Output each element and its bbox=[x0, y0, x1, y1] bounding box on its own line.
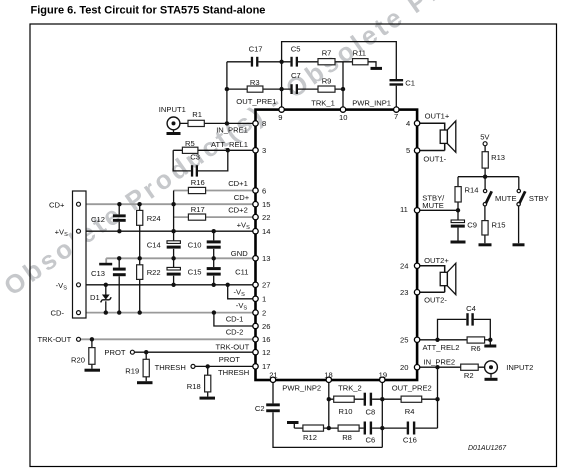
svg-text:R22: R22 bbox=[147, 268, 161, 277]
svg-text:TRK_2: TRK_2 bbox=[338, 383, 362, 392]
svg-text:R12: R12 bbox=[303, 433, 317, 442]
svg-text:C12: C12 bbox=[91, 215, 105, 224]
svg-text:14: 14 bbox=[262, 227, 270, 236]
svg-text:R19: R19 bbox=[125, 367, 139, 376]
svg-text:21: 21 bbox=[269, 370, 277, 379]
svg-text:OUT_PRE2: OUT_PRE2 bbox=[392, 383, 432, 392]
svg-text:ATT_REL2: ATT_REL2 bbox=[423, 343, 460, 352]
svg-text:TRK-OUT: TRK-OUT bbox=[38, 335, 72, 344]
svg-text:19: 19 bbox=[379, 370, 387, 379]
svg-text:GND: GND bbox=[231, 249, 248, 258]
svg-text:R15: R15 bbox=[492, 220, 506, 229]
svg-text:INPUT1: INPUT1 bbox=[159, 105, 186, 114]
svg-text:26: 26 bbox=[262, 322, 270, 331]
svg-text:C15: C15 bbox=[188, 267, 202, 276]
svg-text:3: 3 bbox=[262, 146, 266, 155]
svg-text:R13: R13 bbox=[491, 153, 505, 162]
svg-text:R2: R2 bbox=[464, 371, 474, 380]
svg-text:R17: R17 bbox=[191, 205, 205, 214]
svg-text:R14: R14 bbox=[465, 185, 479, 194]
svg-text:CD-1: CD-1 bbox=[226, 315, 244, 324]
svg-text:C7: C7 bbox=[291, 71, 301, 80]
svg-text:D1: D1 bbox=[90, 293, 100, 302]
svg-text:1: 1 bbox=[262, 295, 266, 304]
svg-text:THRESH: THRESH bbox=[155, 363, 186, 372]
svg-text:PWR_INP2: PWR_INP2 bbox=[282, 383, 321, 392]
svg-text:10: 10 bbox=[339, 113, 347, 122]
svg-text:C9: C9 bbox=[467, 220, 477, 229]
svg-text:C2: C2 bbox=[255, 404, 265, 413]
svg-text:C16: C16 bbox=[403, 436, 417, 445]
svg-text:4: 4 bbox=[406, 119, 410, 128]
svg-text:OUT_PRE1: OUT_PRE1 bbox=[236, 97, 276, 106]
svg-text:CD+1: CD+1 bbox=[228, 179, 248, 188]
svg-text:24: 24 bbox=[400, 262, 408, 271]
svg-text:C17: C17 bbox=[249, 44, 263, 53]
svg-text:R8: R8 bbox=[342, 433, 352, 442]
svg-text:R20: R20 bbox=[71, 355, 85, 364]
svg-text:OUT2-: OUT2- bbox=[424, 295, 447, 304]
svg-text:CD+: CD+ bbox=[234, 193, 250, 202]
svg-text:C5: C5 bbox=[291, 44, 301, 53]
svg-text:5: 5 bbox=[406, 146, 410, 155]
svg-text:16: 16 bbox=[262, 335, 270, 344]
svg-text:C1: C1 bbox=[405, 78, 415, 87]
svg-text:6: 6 bbox=[262, 186, 266, 195]
svg-text:IN_PRE2: IN_PRE2 bbox=[424, 358, 456, 367]
svg-text:CD-2: CD-2 bbox=[226, 328, 244, 337]
svg-text:23: 23 bbox=[400, 288, 408, 297]
svg-text:R7: R7 bbox=[322, 48, 332, 57]
svg-text:ATT_REL1: ATT_REL1 bbox=[211, 140, 248, 149]
svg-text:C10: C10 bbox=[188, 240, 202, 249]
svg-text:CD-: CD- bbox=[51, 309, 65, 318]
svg-text:R24: R24 bbox=[147, 214, 161, 223]
svg-text:R10: R10 bbox=[339, 407, 353, 416]
svg-text:27: 27 bbox=[262, 281, 270, 290]
svg-text:12: 12 bbox=[262, 348, 270, 357]
svg-text:15: 15 bbox=[262, 200, 270, 209]
svg-text:C11: C11 bbox=[235, 267, 248, 276]
svg-text:R5: R5 bbox=[185, 139, 195, 148]
svg-text:Figure 6. Test Circuit for STA: Figure 6. Test Circuit for STA575 Stand-… bbox=[31, 5, 266, 17]
svg-text:CD+: CD+ bbox=[49, 200, 65, 209]
svg-text:R9: R9 bbox=[322, 77, 332, 86]
svg-text:2: 2 bbox=[262, 308, 266, 317]
svg-text:7: 7 bbox=[394, 112, 398, 121]
svg-text:OUT1+: OUT1+ bbox=[425, 112, 450, 121]
svg-text:R16: R16 bbox=[191, 178, 205, 187]
svg-text:C6: C6 bbox=[366, 436, 376, 445]
svg-text:TRK-OUT: TRK-OUT bbox=[216, 343, 250, 352]
svg-text:C14: C14 bbox=[147, 240, 161, 249]
svg-text:C13: C13 bbox=[91, 269, 105, 278]
svg-text:C8: C8 bbox=[366, 408, 376, 417]
svg-text:C4: C4 bbox=[466, 304, 476, 313]
svg-text:R3: R3 bbox=[250, 78, 260, 87]
svg-text:R6: R6 bbox=[471, 344, 481, 353]
svg-text:OUT2+: OUT2+ bbox=[424, 256, 449, 265]
svg-text:22: 22 bbox=[262, 213, 270, 222]
svg-text:PROT: PROT bbox=[104, 348, 125, 357]
svg-text:R18: R18 bbox=[187, 382, 201, 391]
svg-text:OUT1-: OUT1- bbox=[423, 154, 446, 163]
svg-text:STBY: STBY bbox=[529, 194, 549, 203]
svg-text:8: 8 bbox=[262, 119, 266, 128]
svg-text:18: 18 bbox=[324, 370, 332, 379]
svg-text:D01AU1267: D01AU1267 bbox=[468, 445, 507, 452]
svg-text:5V: 5V bbox=[480, 132, 490, 141]
svg-text:11: 11 bbox=[400, 205, 408, 214]
svg-text:9: 9 bbox=[278, 113, 282, 122]
svg-text:MUTE: MUTE bbox=[422, 201, 444, 210]
svg-text:C3: C3 bbox=[190, 153, 200, 162]
svg-text:20: 20 bbox=[400, 363, 408, 372]
svg-text:CD+2: CD+2 bbox=[228, 206, 248, 215]
svg-text:PROT: PROT bbox=[219, 355, 240, 364]
svg-text:THRESH: THRESH bbox=[218, 368, 249, 377]
svg-text:13: 13 bbox=[262, 254, 270, 263]
svg-text:MUTE: MUTE bbox=[495, 194, 517, 203]
svg-text:R4: R4 bbox=[405, 407, 415, 416]
svg-text:INPUT2: INPUT2 bbox=[506, 363, 533, 372]
svg-text:IN_PRE1: IN_PRE1 bbox=[216, 125, 248, 134]
svg-text:25: 25 bbox=[400, 336, 408, 345]
svg-text:TRK_1: TRK_1 bbox=[311, 99, 335, 108]
svg-text:R1: R1 bbox=[192, 110, 202, 119]
svg-text:PWR_INP1: PWR_INP1 bbox=[352, 99, 391, 108]
svg-text:R11: R11 bbox=[353, 48, 366, 57]
